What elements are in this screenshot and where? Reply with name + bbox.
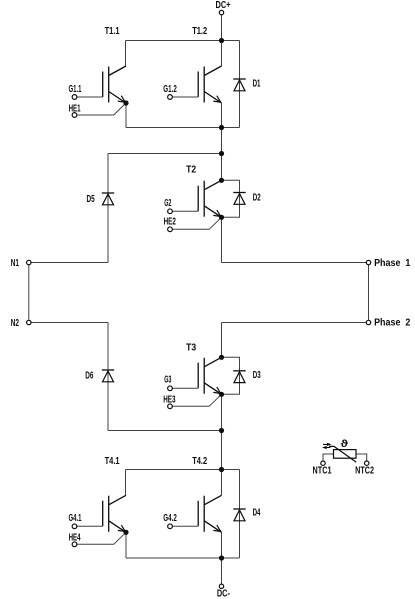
svg-text:N1: N1 [11,258,20,269]
svg-text:T3: T3 [186,343,196,354]
svg-text:DC-: DC- [217,588,230,599]
svg-text:Phase 1: Phase 1 [374,258,411,269]
svg-text:HE2: HE2 [164,216,177,227]
svg-text:NTC2: NTC2 [355,465,374,476]
svg-text:G1.2: G1.2 [163,84,177,95]
svg-text:T1.1: T1.1 [105,26,120,37]
svg-text:T4.2: T4.2 [192,456,207,467]
svg-text:G1.1: G1.1 [69,84,82,95]
svg-text:HE3: HE3 [163,394,176,405]
svg-text:D6: D6 [85,371,93,382]
svg-text:D5: D5 [87,194,95,205]
svg-text:T2: T2 [186,164,196,175]
svg-text:T4.1: T4.1 [105,456,120,467]
svg-text:NTC1: NTC1 [313,465,332,476]
svg-text:D3: D3 [253,370,261,381]
svg-text:T1.2: T1.2 [192,26,207,37]
svg-text:N2: N2 [11,318,20,329]
svg-text:D4: D4 [253,508,261,519]
svg-text:HE4: HE4 [69,533,81,544]
svg-text:D2: D2 [253,192,261,203]
svg-text:G4.1: G4.1 [69,513,82,524]
svg-text:G2: G2 [164,198,171,209]
svg-text:G3: G3 [164,375,171,386]
svg-text:Phase 2: Phase 2 [374,317,411,328]
svg-text:G4.2: G4.2 [163,513,177,524]
svg-text:ϑ: ϑ [341,439,349,450]
svg-text:D1: D1 [253,78,261,89]
svg-text:HE1: HE1 [69,103,81,114]
svg-text:DC+: DC+ [216,0,231,11]
